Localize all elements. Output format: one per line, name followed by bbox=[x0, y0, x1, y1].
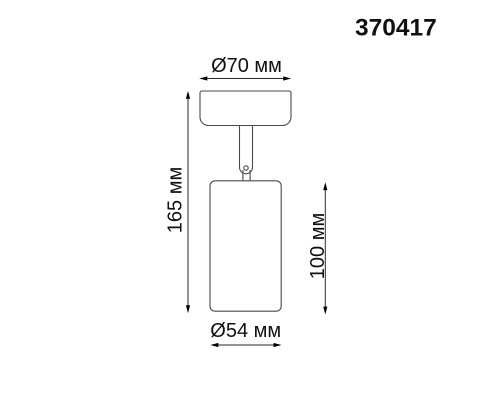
arrowhead right of Ø70 line bbox=[283, 76, 291, 80]
svg-text:165 мм: 165 мм bbox=[165, 167, 187, 233]
dimension line 100 мм (vertical, right) bbox=[324, 189, 326, 308]
svg-text:Ø54 мм: Ø54 мм bbox=[210, 320, 281, 342]
dimension line 165 мм (vertical, left) bbox=[187, 98, 189, 307]
spotlight: ceiling base canopy bbox=[200, 91, 291, 126]
arrowhead bottom of 165 line bbox=[186, 305, 190, 313]
dimension line Ø54 (horizontal, bottom) bbox=[218, 344, 275, 346]
arrowhead top of 100 line bbox=[323, 182, 327, 190]
spotlight: cylindrical lamp body bbox=[210, 181, 281, 311]
arrowhead left of Ø54 line bbox=[210, 343, 218, 347]
arrowhead right of Ø54 line bbox=[274, 343, 282, 347]
svg-text:370417: 370417 bbox=[355, 14, 437, 41]
spotlight: neck between pivot and lamp body bbox=[243, 170, 250, 181]
dimension line Ø70 (horizontal, top) bbox=[207, 78, 285, 80]
svg-text:Ø70 мм: Ø70 мм bbox=[211, 55, 282, 77]
spotlight: stem arm with rounded bottom bbox=[240, 126, 253, 174]
pivot circle bbox=[244, 166, 248, 170]
arrowhead top of 165 line bbox=[186, 91, 190, 99]
arrowhead left of Ø70 line bbox=[199, 76, 207, 80]
arrowhead bottom of 100 line bbox=[323, 307, 327, 315]
